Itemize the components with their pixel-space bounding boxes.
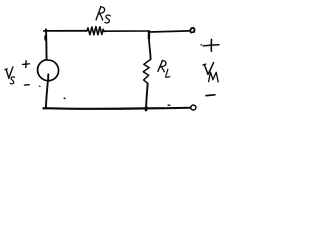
source polarity minus [24, 84, 29, 86]
terminal bottom-right open circle [191, 105, 196, 110]
wire left vertical upper lead [45, 29, 48, 59]
label Vs : subscript s [10, 77, 14, 84]
label VM : subscript M [209, 72, 219, 82]
source polarity plus [23, 63, 30, 66]
terminal polarity plus (right) [203, 45, 219, 46]
wire RL upper lead [149, 36, 151, 59]
wire bottom [43, 107, 163, 110]
wire top middle [104, 30, 149, 32]
node junction bottom of RL [145, 107, 148, 110]
label VM : V [203, 63, 206, 66]
label RL : R [158, 60, 163, 71]
terminal polarity minus (right) [206, 94, 215, 97]
stray dash above bottom wire right [168, 104, 170, 106]
wire top right to terminal [149, 31, 190, 32]
source inner stub [47, 74, 49, 81]
wire left vertical lower lead [46, 81, 48, 108]
label RL : subscript L [166, 69, 170, 77]
label Vs : V [5, 68, 7, 71]
stray dot left of plus [200, 44, 203, 46]
wire RL lower lead [146, 83, 148, 107]
resistor RL zigzag [143, 59, 150, 83]
wire top-left horizontal [44, 30, 87, 32]
stray dot near source [38, 85, 41, 87]
label RS : subscript S [105, 15, 111, 23]
resistor RS zigzag [87, 27, 104, 35]
source Vs circle [38, 60, 59, 81]
stray dot above bottom wire left [63, 97, 66, 99]
terminal top-right open circle [190, 28, 195, 33]
node junction top of RL [148, 31, 151, 38]
label RS : R [96, 7, 101, 20]
